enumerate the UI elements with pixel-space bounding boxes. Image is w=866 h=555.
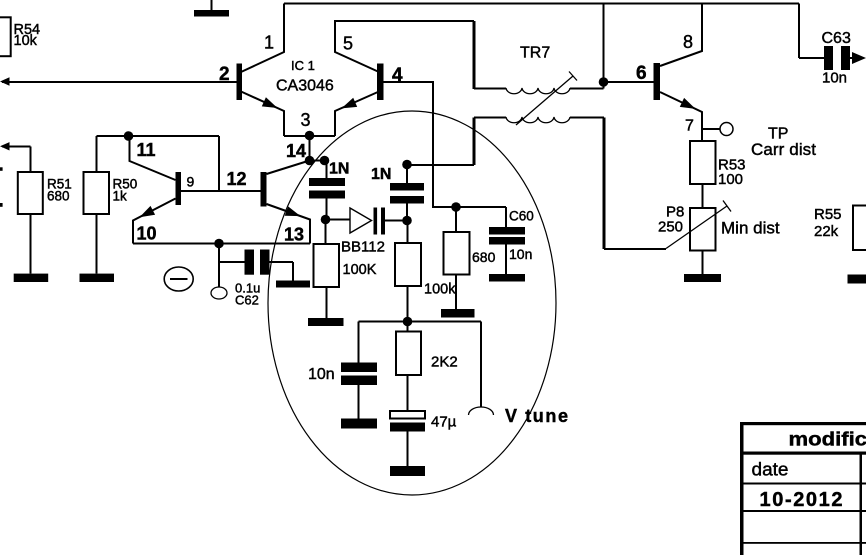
wire pin5 collector	[335, 21, 474, 72]
svg-text:1N: 1N	[371, 166, 391, 183]
svg-text:10n: 10n	[308, 366, 335, 383]
capacitor C63	[799, 4, 866, 87]
svg-text:7: 7	[685, 118, 694, 135]
svg-text:IC 1: IC 1	[291, 58, 315, 73]
wire node 11 horizontal	[97, 131, 220, 191]
varactor BB112	[341, 208, 403, 256]
svg-text:1k: 1k	[113, 189, 128, 204]
TR7 tuning slug diagonal	[516, 72, 577, 126]
node edge tick upper	[0, 167, 3, 171]
svg-text:11: 11	[137, 140, 156, 160]
capacitor 1N right	[371, 160, 424, 226]
resistor 2K2	[396, 322, 458, 412]
svg-text:Min dist: Min dist	[721, 219, 780, 238]
wire 1N-right top to TR7	[407, 164, 474, 166]
wire emitter rail	[133, 239, 310, 249]
svg-text:47µ: 47µ	[431, 414, 457, 431]
wire top supply bus	[284, 3, 799, 5]
wire pin3 emitter left	[241, 92, 284, 137]
svg-text:6: 6	[636, 63, 647, 84]
svg-text:100k: 100k	[424, 282, 456, 298]
resistor 100K left	[314, 244, 377, 318]
svg-text:8: 8	[683, 32, 693, 52]
ground (top left)	[194, 0, 229, 17]
ground (10n left)	[341, 419, 377, 429]
resistor R50	[84, 172, 138, 274]
svg-text:C62: C62	[235, 293, 259, 308]
transformer TR7 primary	[474, 45, 604, 94]
resistor 100K right	[395, 221, 456, 322]
svg-text:4: 4	[392, 65, 403, 86]
svg-text:250: 250	[658, 219, 683, 236]
svg-text:TR7: TR7	[520, 45, 550, 62]
capacitor C62	[219, 244, 293, 308]
wire TR7 secondary right down to P8	[604, 118, 666, 250]
battery symbol (minus circle)	[164, 267, 193, 291]
ground (680)	[441, 309, 475, 318]
svg-text:680: 680	[47, 189, 70, 204]
svg-text:2K2: 2K2	[431, 354, 458, 371]
svg-text:3: 3	[301, 110, 311, 130]
node 2K2 top	[359, 317, 482, 327]
IC labels	[219, 33, 403, 162]
transistor IC1 Q-right (pins 5,4,3)	[335, 21, 506, 207]
wire pin1 collector	[241, 4, 284, 73]
svg-text:10n: 10n	[509, 246, 532, 262]
svg-text:CA3046: CA3046	[276, 78, 334, 95]
svg-text:10k: 10k	[14, 33, 38, 49]
svg-text:V tune: V tune	[505, 406, 568, 426]
svg-text:BB112: BB112	[341, 239, 385, 256]
svg-text:13: 13	[284, 225, 304, 245]
ground (R55)	[848, 275, 866, 284]
wire pin10 emitter	[133, 199, 176, 244]
svg-text:modific: modific	[789, 429, 866, 451]
svg-text:C60: C60	[509, 209, 534, 224]
svg-text:C63: C63	[822, 30, 851, 47]
svg-text:1: 1	[264, 33, 274, 53]
terminal V tune	[469, 322, 569, 427]
capacitor 1N left	[309, 161, 349, 218]
svg-text:2: 2	[219, 64, 230, 85]
node edge tick lower	[0, 203, 3, 207]
node 3 emitter bus	[284, 131, 335, 141]
mirror labels	[137, 140, 305, 245]
test point TP	[702, 123, 816, 160]
capacitor 47u electrolytic	[390, 411, 457, 466]
resistor R53	[690, 141, 746, 208]
ground (R50)	[80, 274, 115, 282]
capacitor 10n left	[308, 322, 377, 419]
resistor R55	[814, 206, 866, 251]
node Q6 base	[599, 4, 654, 87]
svg-text:100K: 100K	[343, 262, 377, 278]
wire base 9-12	[181, 190, 261, 192]
wire pin5 vertical to TR7 top winding	[473, 21, 476, 89]
resistor R51	[0, 142, 72, 274]
svg-text:22k: 22k	[814, 223, 839, 240]
wire pin4 base	[384, 82, 507, 207]
node BB112 anode	[321, 215, 350, 244]
capacitor C60	[489, 207, 534, 274]
node 14	[305, 136, 330, 178]
svg-text:R55: R55	[814, 206, 842, 223]
resistor 680	[444, 202, 496, 309]
transistor IC1 Q-left (pins 1,2,3)	[237, 4, 285, 137]
potentiometer P8	[658, 201, 780, 275]
terminal (C62 input)	[211, 262, 227, 299]
wire pin7 emitter	[660, 92, 702, 141]
wire pin8 collector	[660, 4, 702, 67]
wire pin3 emitter right	[335, 92, 379, 137]
ground (R51)	[14, 274, 49, 282]
svg-text:Carr dist: Carr dist	[751, 140, 816, 159]
svg-text:100: 100	[718, 171, 743, 188]
svg-text:12: 12	[227, 169, 247, 189]
svg-text:10n: 10n	[822, 70, 847, 87]
transformer TR7 secondary	[474, 117, 604, 165]
ground (C60)	[489, 274, 525, 282]
svg-text:date: date	[752, 460, 789, 480]
transistor Q12	[261, 161, 311, 244]
ground (47u)	[390, 466, 425, 476]
wire pin2 base wire with left arrow	[0, 77, 237, 85]
svg-text:14: 14	[286, 141, 306, 161]
ellipse VCO outline	[268, 111, 556, 495]
wire pin14 collector	[267, 161, 310, 175]
wire pin13 emitter	[267, 204, 311, 244]
resistor R54	[0, 17, 40, 56]
svg-text:680: 680	[472, 249, 496, 265]
svg-text:5: 5	[343, 34, 353, 54]
svg-text:9: 9	[187, 174, 195, 190]
ground (100K left)	[308, 318, 344, 326]
ground (P8)	[684, 274, 721, 282]
wire pin11 collector	[130, 136, 176, 180]
svg-text:10: 10	[137, 224, 157, 244]
ground (C62)	[276, 281, 310, 288]
svg-text:1N: 1N	[329, 161, 349, 178]
transistor Q9	[130, 136, 182, 244]
transistor Q6	[636, 4, 702, 142]
